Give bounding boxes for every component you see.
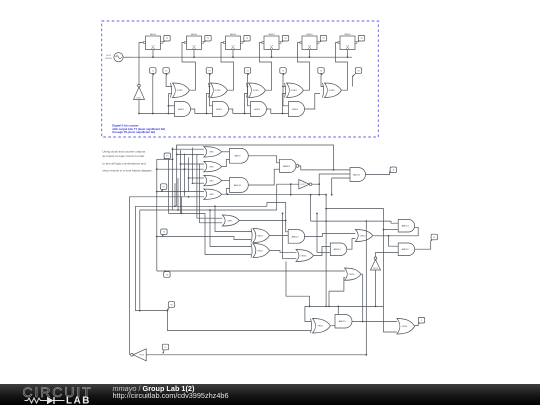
wire mesh vertical x=188.5 <box>188 158 190 193</box>
wire mesh third left vertical <box>139 210 141 311</box>
wire carry riser to XOR4 lower input <box>283 94 287 114</box>
node flag B (output) <box>431 234 438 241</box>
node flag T1 (output of REG1) <box>163 35 170 42</box>
node flag T2 (logic input) <box>160 184 166 192</box>
wire AND3 output to carry chain <box>267 109 271 114</box>
svg-text:as inputs to logic circuit in: as inputs to logic circuit in order <box>102 154 144 158</box>
wire NOT2 output to AND11 mid input <box>312 174 350 184</box>
junction clock at REG5 <box>309 56 311 58</box>
wire T1 riser to XOR1/AND1 inputs <box>168 94 170 114</box>
wire mesh vertical x=176.7 <box>176 145 178 206</box>
or gate OR8 <box>204 189 222 199</box>
wire AND14 output to OR12 lower input <box>347 239 356 250</box>
svg-text:LAB: LAB <box>66 396 91 405</box>
wire top feedback net <box>177 145 334 170</box>
wire mid vertical <box>325 195 327 307</box>
wire OR5 output to AND9 <box>222 151 230 153</box>
and gate AND15 <box>335 315 352 329</box>
svg-text:AND11: AND11 <box>353 173 361 176</box>
node flag T4 (logic input) <box>164 270 170 277</box>
wire AND9 output to NAND1 <box>248 156 279 163</box>
wire OR7 output to AND10 <box>222 180 230 182</box>
node flag T6 (logic input) <box>167 302 174 310</box>
svg-text:REG5: REG5 <box>307 34 314 36</box>
wire mesh rail3 to XOR11 lower input <box>169 213 252 254</box>
wire OR14 output to flag C <box>415 324 418 326</box>
svg-text:AND13: AND13 <box>402 225 410 228</box>
and gate AND2 <box>213 102 229 117</box>
footer credit text <box>113 385 229 400</box>
wire vertical NOT2 branch <box>318 184 320 195</box>
wire OR6 output to AND9 <box>222 160 230 167</box>
wire REG1 clock stub <box>152 50 154 58</box>
wire rail B to AND13 upper input <box>311 221 399 223</box>
wire T6 extra stub <box>352 77 354 87</box>
or gate OR16 <box>345 268 362 280</box>
svg-text:AND10: AND10 <box>234 184 242 187</box>
svg-text:XOR2: XOR2 <box>215 90 222 92</box>
svg-text:OR11: OR11 <box>257 250 263 252</box>
junction OR16 net on AND15 output <box>362 321 364 323</box>
wire rail B riser from NOT2 rail <box>310 195 312 221</box>
or gate OR12 <box>355 230 373 242</box>
wire OR16 output down to OR14 input net <box>361 274 363 321</box>
wire to AND15 upper input <box>335 306 338 317</box>
junction T6 branch <box>167 310 169 312</box>
svg-text:REG4: REG4 <box>269 34 276 36</box>
clock source CLK1 100 Hz <box>105 53 123 62</box>
wire T4 long horizontal to OR16 upper input <box>157 270 345 272</box>
D flip-flop REG2 <box>184 34 203 50</box>
wire mesh vertical x=199.5 <box>199 164 201 223</box>
svg-text:REG2: REG2 <box>191 34 198 36</box>
node flag T3 (stage 2 input) <box>206 68 212 76</box>
node flag T4 (stage 3 input) <box>244 68 250 76</box>
wire OR15 lower input from T6 line <box>310 330 312 332</box>
junction OR12/AND13 net <box>388 235 390 237</box>
footer bar <box>0 384 540 405</box>
wire OR9 output to AND12 upper input <box>239 221 288 232</box>
node flag T3 (logic input) <box>161 229 167 236</box>
wire NAND1 output to AND11 <box>299 166 350 170</box>
svg-text:OR14: OR14 <box>402 326 408 328</box>
wire NOT1 output to REG1 D input <box>139 43 143 85</box>
svg-text:AND16: AND16 <box>402 248 410 251</box>
wire AND11 third input <box>332 177 350 179</box>
wire AND14 lower input <box>317 252 330 254</box>
svg-text:OR8: OR8 <box>209 194 214 196</box>
wire rail1 corner to OR9 output net <box>267 203 286 221</box>
node flag T2 (output of REG2) <box>204 35 211 42</box>
junction clock at REG3 <box>232 56 234 58</box>
svg-text:OR10: OR10 <box>257 235 263 237</box>
wire T6 branch down to OR15 <box>167 311 310 331</box>
wire XOR1 output to REG2 D input <box>182 43 196 91</box>
caption digital counter description <box>111 123 165 134</box>
D flip-flop REG6 <box>338 34 357 50</box>
junction clock at REG6 <box>347 56 349 58</box>
wire AND16 output to flag B <box>415 241 431 249</box>
wire REG6 clock stub <box>347 50 349 58</box>
svg-text:OR6: OR6 <box>209 167 214 169</box>
wire OR8 output to lower rail <box>228 193 327 196</box>
xor gate XOR2 <box>209 83 228 98</box>
svg-text:AND4: AND4 <box>292 108 299 111</box>
junction clock at REG1 <box>152 56 154 58</box>
D flip-flop REG5 <box>300 34 319 50</box>
svg-text:AND12: AND12 <box>292 235 300 238</box>
wire T6 flag drop <box>321 75 324 86</box>
wire XOR10 output to AND12 lower input <box>270 235 288 237</box>
clock rail <box>131 56 352 58</box>
svg-text:OR9: OR9 <box>227 220 232 222</box>
node flag C (output) <box>418 317 424 323</box>
and gate AND3 <box>251 102 267 117</box>
junction T1 line end <box>365 354 367 356</box>
wire mesh to OR8 upper input <box>157 191 204 193</box>
CircuitLab logo <box>0 384 120 405</box>
junction clock at REG4 <box>271 56 273 58</box>
svg-text:OR13: OR13 <box>300 255 306 257</box>
svg-text:REG1: REG1 <box>150 34 157 36</box>
wire OR15 output to AND15 <box>331 325 335 327</box>
wire AND2 output to carry chain <box>229 109 233 114</box>
node flag T5 (logic input) <box>164 153 171 159</box>
wire REG4 clock stub <box>271 50 273 58</box>
and gate AND11 <box>350 168 366 182</box>
and gate AND9 <box>230 148 249 163</box>
wire OR13 area drop to bottom bus <box>286 262 310 307</box>
D flip-flop REG1 <box>143 34 162 50</box>
xor gate OR10 <box>251 229 270 243</box>
junction OR9 output net <box>285 220 287 222</box>
wire mesh vertical to rail3 <box>181 197 183 214</box>
node flag T5 (stage 4 input) <box>280 68 286 76</box>
svg-text:NAND1: NAND1 <box>283 165 291 168</box>
and gate AND14 <box>330 243 346 256</box>
wire REG3 clock stub <box>232 50 234 58</box>
svg-text:NOT1: NOT1 <box>137 98 142 100</box>
wire bottom distribution horizontal <box>305 305 384 307</box>
xor gate XOR1 <box>171 83 190 98</box>
wire NOT3 output to AND16 lower input <box>376 253 399 257</box>
wire AND13 output feedback to AND16 upper input <box>389 227 419 246</box>
svg-text:100 Hz: 100 Hz <box>105 58 112 60</box>
note text about logic testing <box>102 150 153 173</box>
svg-text:XOR4: XOR4 <box>291 90 298 92</box>
junction rail2 riser <box>209 209 211 211</box>
wire NOT4 output long riser to OR8 lower input <box>130 197 204 355</box>
xor gate OR11 <box>251 244 270 258</box>
svg-text:OR15: OR15 <box>317 326 323 328</box>
or gate OR7 <box>204 175 222 185</box>
wire carry chain segment 3 <box>271 113 289 115</box>
wire OR13 lower riser vertical <box>282 213 284 258</box>
and gate AND1 <box>175 102 191 117</box>
wire rail A to tall right vertical <box>326 209 397 332</box>
wire rail2 horizontal <box>140 209 277 211</box>
wire OR8 output to AND10 <box>222 189 230 195</box>
xor gate XOR5 <box>323 83 342 98</box>
logo diode triangle <box>48 397 54 404</box>
wire mesh vertical x=184.5 <box>184 154 186 197</box>
wire NOT1 input from T1 rail <box>138 100 140 114</box>
wire rail2 riser to NOT2 input <box>277 184 299 210</box>
or gate OR5 <box>204 147 222 157</box>
wire OR13 output to AND14 <box>314 247 330 256</box>
or gate OR9 <box>222 215 239 226</box>
node flag T5 (output of REG5) <box>320 35 327 42</box>
wire NOT3 input drop <box>375 270 377 306</box>
svg-text:to test all logic combinations: to test all logic combinations and <box>102 161 146 165</box>
junction feedback at AND11 input net <box>333 169 335 171</box>
or gate OR6 <box>204 161 222 171</box>
wire T5 flag drop <box>283 75 289 105</box>
wire mesh vertical x=196.9 <box>196 155 198 219</box>
svg-text:AND14: AND14 <box>334 248 342 251</box>
svg-text:AND1: AND1 <box>178 108 185 111</box>
wire XOR4 output to REG5 D input <box>298 43 310 91</box>
wire left column vertical <box>156 159 158 271</box>
junction drop on bottom bus <box>309 306 311 308</box>
node flag T1 (logic input) <box>162 344 168 353</box>
svg-text:XOR5: XOR5 <box>329 90 336 92</box>
wire AND15 output to OR14 upper input <box>352 321 397 323</box>
xor gate XOR4 <box>285 83 304 98</box>
wire loop to OR15 upper input <box>305 306 311 321</box>
node flag T6 (output of REG6) <box>358 35 365 42</box>
wire carry chain segment 1 <box>195 113 213 115</box>
node flag T3 (output of REG3) <box>243 35 250 42</box>
svg-text:NOT3: NOT3 <box>373 268 378 270</box>
wire OR16 lower input loop <box>329 277 345 291</box>
xor gate XOR3 <box>247 83 266 98</box>
wire OR12 output <box>373 235 388 237</box>
wire mesh to OR5 inputs <box>173 148 204 150</box>
svg-text:Using clock and counter output: Using clock and counter outputs <box>102 150 145 154</box>
wire AND4 output up to XOR5 lower input <box>305 94 321 110</box>
wire T1 flag drop <box>152 75 154 113</box>
and gate AND16 <box>398 243 414 256</box>
wire XOR11 output to OR13 upper input <box>270 251 297 253</box>
wire right long vertical from T1 line <box>365 221 367 355</box>
wire carry riser to XOR2 lower input <box>207 94 211 114</box>
node flag T4 (output of REG4) <box>282 35 289 42</box>
svg-text:OR5: OR5 <box>209 152 214 154</box>
svg-text:NOT4: NOT4 <box>139 355 144 357</box>
wire AND1 output to carry chain <box>191 109 195 114</box>
wire AND10 output to NAND1 <box>248 169 279 185</box>
node flag T1 (counter input) <box>150 68 156 76</box>
wire NOT2 input riser to rail <box>290 184 292 195</box>
wire mesh horizontal rail to OR9 <box>197 217 222 219</box>
svg-text:AND15: AND15 <box>339 320 347 323</box>
inverter NOT3 <box>371 257 381 270</box>
wire AND14 lower input riser <box>316 213 318 252</box>
node flag T6 (stage 5 input) <box>318 68 324 76</box>
or gate OR13 <box>296 250 314 262</box>
wire XOR2 output to REG3 D input <box>221 43 234 91</box>
svg-text:through T6 (most significant b: through T6 (most significant bit) <box>112 130 155 134</box>
logo resistor-diode symbol <box>25 397 65 404</box>
wire mesh vertical x=192.5 <box>192 148 194 182</box>
or gate OR14 <box>397 319 415 335</box>
svg-text:NOT2: NOT2 <box>301 184 306 186</box>
wire clock output <box>123 56 131 58</box>
svg-text:OR7: OR7 <box>209 181 214 183</box>
svg-text:OR12: OR12 <box>360 235 366 237</box>
D flip-flop REG3 <box>223 34 242 50</box>
wire T3 flag drop <box>209 75 212 105</box>
and gate AND12 <box>288 230 305 244</box>
xor gate OR15 <box>311 319 331 334</box>
inverter NOT1 <box>134 84 145 99</box>
counter enclosure dashed box <box>102 21 379 137</box>
wire REG5 clock stub <box>309 50 311 58</box>
inverter NOT2 <box>299 180 312 190</box>
wire carry chain segment 2 <box>233 113 251 115</box>
junction T1 drop on rail <box>152 113 154 115</box>
wire mesh vertical x=172.5 <box>172 148 174 211</box>
wire mesh verticals down to rails <box>174 183 176 206</box>
inverter NOT4 <box>131 349 147 361</box>
wire AND11 third input riser <box>331 178 333 195</box>
wire AND12 output <box>304 234 355 237</box>
nand gate NAND1 <box>280 159 299 172</box>
svg-text:AND2: AND2 <box>216 108 223 111</box>
wire mesh vertical x=180.5 <box>180 150 182 214</box>
junction clock at REG2 <box>193 56 195 58</box>
node flag T2 (XOR1 input) <box>163 68 169 76</box>
wire OR13 lower input riser <box>283 258 297 260</box>
wire REG2 clock stub <box>193 50 195 58</box>
junction NOT1 input on T1 rail <box>138 113 140 115</box>
wire AND11 output to flag A <box>366 171 390 174</box>
junction OR8 output <box>227 193 229 195</box>
wire branch to AND13 lower input <box>384 229 399 231</box>
svg-text:XOR3: XOR3 <box>253 90 260 92</box>
svg-text:OR16: OR16 <box>349 274 355 276</box>
svg-text:REG3: REG3 <box>230 34 237 36</box>
wire left vertical T5 net <box>168 159 170 213</box>
svg-text:AND9: AND9 <box>234 155 241 158</box>
and gate AND13 <box>398 220 414 233</box>
and gate AND4 <box>289 102 305 117</box>
and gate AND10 <box>230 178 249 193</box>
wire T2 flag drop to XOR1 input <box>166 75 172 86</box>
D flip-flop REG4 <box>262 34 281 50</box>
wire T1 bottom long horizontal <box>147 354 367 356</box>
wire carry riser to XOR3 lower input <box>245 94 249 114</box>
wire mesh to OR6 inputs <box>181 163 204 165</box>
wire T5 to mesh <box>157 158 173 160</box>
wire OR16 loop riser <box>328 291 330 306</box>
svg-text:XOR1: XOR1 <box>177 90 184 92</box>
junction rail1 riser <box>214 205 216 207</box>
wire rail2 riser to XOR11 upper input <box>210 210 251 247</box>
wire T1 bottom rail <box>139 113 175 115</box>
wire T6 branch left and up into mesh rail1 <box>136 206 267 310</box>
svg-text:AND3: AND3 <box>254 108 261 111</box>
svg-text:CLK1: CLK1 <box>106 55 112 57</box>
wire XOR3 output to REG4 D input <box>260 43 272 91</box>
svg-text:show results in a time based d: show results in a time based diagram. <box>102 169 153 173</box>
wire mesh to OR7 inputs <box>189 177 204 179</box>
svg-text:REG6: REG6 <box>345 34 352 36</box>
junction AND13 lower branch <box>383 229 385 231</box>
wire rail1 riser to XOR10 upper input <box>215 206 252 231</box>
wire XOR5 output to REG6 D input <box>336 43 348 91</box>
wire T3 to XOR10 lower input <box>157 237 251 240</box>
node flag A (output) <box>390 167 397 173</box>
wire T4 flag drop <box>248 75 251 105</box>
node flag T6 (extra) <box>353 68 362 77</box>
